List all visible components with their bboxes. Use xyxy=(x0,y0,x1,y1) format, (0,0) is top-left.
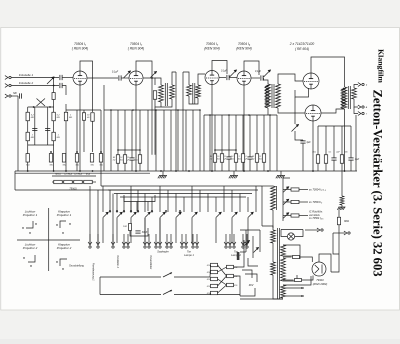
svg-text:50Ω: 50Ω xyxy=(207,279,211,281)
wire terminal feed x98 xyxy=(97,190,99,243)
potentiometer hum balance xyxy=(292,125,299,132)
svg-text:MΩ: MΩ xyxy=(31,117,35,119)
wire cathode group drop x125 xyxy=(124,110,126,155)
resistor R13 1M xyxy=(64,112,67,121)
wire bracket left xyxy=(14,171,16,190)
resistor screen group x257 xyxy=(255,154,258,163)
svg-text:70504 I₁: 70504 I₁ xyxy=(74,42,86,46)
connector block K3 xyxy=(211,277,218,280)
wire V4 plate loop xyxy=(244,61,259,75)
svg-text:Klangfilm: Klangfilm xyxy=(377,49,386,83)
wire right row drop x351 xyxy=(350,126,352,158)
node cathode cluster junction xyxy=(117,149,119,151)
wire screen group drop x250 xyxy=(249,115,251,157)
wire relay contact lower x131 xyxy=(130,218,132,243)
svg-text:( RE 604): ( RE 604) xyxy=(295,47,309,51)
wire terminal lead x156 xyxy=(155,234,157,245)
wire relay contact lower x145 xyxy=(144,218,146,243)
tube V4 70504 I4 (REN 904) xyxy=(237,71,251,85)
resistor right row x342 xyxy=(340,155,343,164)
wire terminal lead x160 xyxy=(159,218,161,245)
svg-text:NF: NF xyxy=(13,91,17,95)
transformer T4 primary winding xyxy=(342,87,347,109)
node bus junctions xyxy=(27,170,29,172)
svg-text:Projektor 2: Projektor 2 xyxy=(23,246,38,250)
wire relay contact lower x103 xyxy=(102,218,104,243)
wire long drop x200 xyxy=(199,110,201,171)
svg-text:0,1: 0,1 xyxy=(329,152,332,154)
wire bracket bottom xyxy=(15,189,150,191)
resistor heater chain R41 xyxy=(54,180,63,183)
wire long drop x171 xyxy=(170,110,172,171)
node mid feed junctions xyxy=(110,109,112,111)
wire connector to transformer xyxy=(234,240,245,267)
wire terminal lead x247 xyxy=(246,234,248,245)
wire T3 primary top xyxy=(264,78,269,84)
svg-text:Projektor 1: Projektor 1 xyxy=(57,213,72,217)
wire T1 primary bottom xyxy=(160,102,162,107)
svg-text:MΩ: MΩ xyxy=(258,159,262,161)
wire T3 secondary bottom to V6 grid xyxy=(278,108,305,113)
wire terminal lead x167 xyxy=(166,234,168,245)
terminal control x193 xyxy=(191,242,195,248)
wire terminal lead x230 xyxy=(229,234,231,245)
wire relay left drop xyxy=(100,171,102,186)
wire right row drop x334 xyxy=(333,126,335,158)
terminal control x197 xyxy=(195,242,199,248)
wire terminal lead x186 xyxy=(185,234,187,245)
wire hum cap to bus xyxy=(302,139,304,141)
wire relay bus B xyxy=(108,189,258,191)
svg-text:Verstärker 2: Verstärker 2 xyxy=(116,255,119,269)
terminal control x90 xyxy=(88,242,92,248)
wire T3 primary bottom xyxy=(267,108,269,115)
wire relay contact lower x232 xyxy=(231,218,233,243)
wire T1 primary top xyxy=(155,78,161,85)
wire right edge drop xyxy=(355,115,357,171)
svg-text:Projektor 1: Projektor 1 xyxy=(23,213,38,217)
terminal control x171 xyxy=(169,242,173,248)
switch position glyph TR xyxy=(60,221,66,228)
wire cap 30uF link xyxy=(130,228,148,236)
svg-text:50Ω: 50Ω xyxy=(207,286,211,288)
svg-text:( REN 904): ( REN 904) xyxy=(128,47,145,51)
wire terminal lead x171 xyxy=(170,234,172,245)
resistor R14 50k xyxy=(82,113,85,121)
svg-text:Fotozelle 2: Fotozelle 2 xyxy=(19,81,34,85)
potentiometer volume 1 xyxy=(124,71,131,78)
wire T4 secondary top to output c xyxy=(354,85,358,89)
svg-text:MΩ: MΩ xyxy=(31,137,35,139)
svg-text:0,1µF: 0,1µF xyxy=(221,71,228,73)
wire cathode group drop x132 xyxy=(131,110,133,158)
wire mains bracket 2 xyxy=(242,270,252,278)
wire relay drop x208 xyxy=(207,194,209,213)
wire relay bus to T5 primary xyxy=(261,186,263,226)
capacitor C12a xyxy=(45,128,50,130)
resistor feedback tap y202 xyxy=(291,200,299,203)
wire left drop x27.7 xyxy=(27,107,29,171)
resistor heater chain R42 xyxy=(64,180,73,183)
wire long drop x104 xyxy=(103,110,105,171)
wire feedback column vertical xyxy=(282,185,284,221)
svg-text:MΩ: MΩ xyxy=(50,165,54,167)
svg-text:60Ω: 60Ω xyxy=(344,219,349,223)
node T1 input junction xyxy=(151,77,153,79)
tube V1 70504 I1 (REN 904) xyxy=(73,71,87,85)
transformer T2 primary winding xyxy=(187,85,192,96)
table divider horizontal xyxy=(17,239,80,241)
wire left drop x101 xyxy=(100,110,102,171)
svg-text:Lampe 2: Lampe 2 xyxy=(231,254,241,257)
svg-text:(REN 904): (REN 904) xyxy=(204,47,220,51)
svg-text:(REN 904): (REN 904) xyxy=(236,47,252,51)
capacitor output stage xyxy=(300,141,305,143)
tube V6 RE604 lower xyxy=(305,105,321,121)
terminal control x149 xyxy=(147,242,151,248)
transformer T4 secondary winding xyxy=(352,88,357,99)
wire relay drop x117 xyxy=(116,194,118,213)
transformer T4 primary winding inner xyxy=(341,88,345,108)
wire long drop x156 xyxy=(155,110,157,171)
wire cathode group drop x118 xyxy=(117,110,119,155)
transformer T5 secondary HT lower xyxy=(281,258,286,281)
svg-text:2µF: 2µF xyxy=(335,152,340,154)
wire long drop x178 xyxy=(177,110,179,171)
wire right row drop x342 xyxy=(341,126,343,155)
wire relay drop x184 xyxy=(183,197,185,212)
wire filament return xyxy=(240,298,283,300)
wire screen group drop x222 xyxy=(221,115,223,154)
wire input 2 stub xyxy=(63,86,67,96)
wire coupling to V4 grid xyxy=(230,77,238,79)
resistor bias chain R33 xyxy=(62,154,65,163)
wire V2 plate loop xyxy=(136,61,152,88)
connector block K5 xyxy=(211,291,218,294)
wire input 2 xyxy=(12,85,60,87)
wire T5 filament to rectifier xyxy=(283,276,311,285)
svg-text:(RGN 2004): (RGN 2004) xyxy=(313,282,328,286)
wire T1 secondary top to long drop xyxy=(172,72,176,85)
wire relay drop x224 xyxy=(223,186,225,212)
svg-text:Vorverstärker: Vorverstärker xyxy=(149,255,152,269)
wire relay drop x152 xyxy=(151,197,153,212)
wire V4 plate to coupling cap xyxy=(251,77,260,79)
wire choke top xyxy=(262,185,273,187)
switch position glyph TL xyxy=(26,221,33,228)
wire T3 secondary top to V5 grid xyxy=(278,74,303,84)
potentiometer T1 input xyxy=(151,72,157,78)
terminal control x234 xyxy=(232,242,236,248)
wire terminal lead x98 xyxy=(97,234,99,245)
wire right row drop x318 xyxy=(317,126,319,155)
svg-text:zu 70504 I₄ ₅: zu 70504 I₄ ₅ xyxy=(308,217,323,220)
resistor cathode group x140 xyxy=(138,155,141,164)
svg-text:MΩ: MΩ xyxy=(230,159,234,161)
svg-text:MΩ: MΩ xyxy=(134,160,138,162)
capacitor input 1 xyxy=(60,75,62,80)
wire relay drop x200 xyxy=(199,190,201,212)
wire anode feed lower cont xyxy=(302,276,314,281)
wire mains terminal link xyxy=(305,229,318,231)
svg-text:0,1µF: 0,1µF xyxy=(255,71,262,73)
wire right column down xyxy=(333,233,339,254)
wire feedback tap y215.5 xyxy=(283,215,291,217)
wire V1 cathode down xyxy=(79,85,81,110)
wire terminal lead x128 xyxy=(127,234,129,245)
wire screen group drop x257 xyxy=(256,115,258,154)
switch mains contact 2 xyxy=(254,248,259,253)
wire connector feeds xyxy=(209,265,212,277)
ground symbol at x234 xyxy=(233,171,235,176)
wire left drop x53.6 xyxy=(53,86,55,172)
wire relay drop x145 xyxy=(144,194,146,213)
resistor heater chain R44 xyxy=(84,180,93,183)
connector block K1 xyxy=(211,263,218,266)
wire relay drop x240 xyxy=(239,194,241,213)
switch mains contact 1 xyxy=(245,241,250,246)
switch feedback tap y189.5 xyxy=(283,187,289,193)
svg-text:Lampe 1: Lampe 1 xyxy=(184,254,194,257)
wire feedback column riser xyxy=(283,178,290,185)
svg-text:Zetton-Verstärker (3. Serie) 3: Zetton-Verstärker (3. Serie) 32 603 xyxy=(371,89,385,276)
wire V5 plate to T4 xyxy=(311,57,345,87)
wire V6 cathode down xyxy=(312,121,314,171)
switch relay contact x160 xyxy=(160,212,166,218)
wire long drop x111 xyxy=(110,110,112,171)
wire V1 to coupling cap xyxy=(87,77,118,79)
terminal output c xyxy=(358,83,364,87)
terminal mains arrow 1 xyxy=(317,228,323,232)
wire T4 secondary bottom xyxy=(354,99,358,107)
svg-text:50Ω: 50Ω xyxy=(234,285,238,287)
wire main bus second line xyxy=(15,172,150,174)
svg-text:0,1µF: 0,1µF xyxy=(112,71,119,74)
tube V7 rectifier 79301 RGN2004 xyxy=(312,262,326,276)
resistor right row x318 xyxy=(316,155,319,164)
switch relay contact x176 xyxy=(176,212,182,218)
resistor feedback tap y189.5 xyxy=(291,188,299,191)
resistor bias chain R34 xyxy=(75,154,78,163)
capacitor screen group x250 xyxy=(247,157,252,159)
wire choke bottom xyxy=(272,210,274,228)
terminal control x247 xyxy=(245,242,249,248)
tube V5 RE604 upper xyxy=(303,73,319,89)
wire relay inner drops xyxy=(130,202,132,212)
wire drop x88 xyxy=(79,110,81,171)
node screen cluster junctions xyxy=(214,149,216,151)
transformer T3 primary winding xyxy=(266,84,271,108)
resistor cathode group x125 xyxy=(123,155,126,164)
wire heater chain connections xyxy=(52,181,54,183)
resistor bleeder zigzag xyxy=(340,196,344,205)
connector block K4 xyxy=(211,284,218,287)
resistor anode fuse lower xyxy=(295,279,302,282)
switch position glyph BL xyxy=(28,255,35,262)
wire T5 secondary taps xyxy=(283,245,300,259)
wire relay drop x256 xyxy=(255,186,257,212)
resistor R12 0,2M xyxy=(52,112,55,121)
wire V5 cathode xyxy=(295,88,309,97)
capacitor cathode group x132 xyxy=(129,158,134,160)
node row3 junctions xyxy=(50,151,52,153)
wire mains network verticals xyxy=(245,230,247,252)
switch mains blade 2 xyxy=(163,290,172,295)
wire screen group drop x215 xyxy=(214,115,216,154)
transformer T5 primary winding upper xyxy=(271,230,276,243)
svg-text:MΩ: MΩ xyxy=(69,117,73,119)
ground bleeder xyxy=(341,205,343,207)
wire terminal lead x149 xyxy=(148,234,150,245)
svg-text:(kΩ): (kΩ) xyxy=(86,174,90,176)
terminal mains arrow 2 xyxy=(344,231,350,235)
wire output arrow 2 xyxy=(284,295,304,297)
wire input 1 to V1 grid xyxy=(63,77,74,79)
resistor screen group x236 xyxy=(234,154,237,163)
tube V3 70504 I3 (REN 904) xyxy=(205,71,219,85)
transformer T2 core xyxy=(192,83,194,104)
wire NF stub xyxy=(12,95,19,97)
wire mains bracket 1 xyxy=(248,258,258,266)
node input junction 1 xyxy=(53,77,55,79)
switch relay contact x192 xyxy=(192,212,198,218)
terminal control x230 xyxy=(228,242,232,248)
switch position glyph BR xyxy=(60,259,67,266)
wire mains lower xyxy=(240,288,255,296)
node left y107 junctions xyxy=(33,106,35,108)
wire relay bus C xyxy=(114,193,252,195)
wire terminal feed x113 xyxy=(112,194,114,244)
wire V3 plate to coupling xyxy=(219,77,226,79)
wire rectifier anode feed lower xyxy=(283,279,294,281)
wire terminal lead x113 xyxy=(112,234,114,245)
resistor T1 damping xyxy=(153,91,156,100)
node relay contact circles xyxy=(109,210,111,212)
wire screen group drop x243 xyxy=(242,115,244,154)
wire relay contact lower x192 xyxy=(191,218,193,243)
potentiometer volume 2 xyxy=(230,70,237,77)
terminal output a xyxy=(358,105,364,109)
resistor screen group x222 xyxy=(220,154,223,163)
ground symbol at x281 xyxy=(280,171,282,176)
terminal NF xyxy=(5,94,11,98)
wire mid row feed horizontal xyxy=(104,109,200,111)
wire T5 primary link xyxy=(272,243,274,262)
resistor bias chain R31 xyxy=(26,154,29,163)
switch relay contact x103 xyxy=(103,212,109,218)
wire mains network horizontals xyxy=(240,229,260,231)
switch relay contact x232 xyxy=(232,212,238,218)
node screen feed junctions xyxy=(209,114,211,116)
wire left drop x47.7 xyxy=(47,107,49,145)
wire V3 plate loop xyxy=(212,61,227,75)
wire long drop x193 xyxy=(192,110,194,171)
capacitor 30uF xyxy=(135,231,140,233)
wire mains switch row 1 cont xyxy=(174,276,210,278)
wire T5 primary top xyxy=(262,226,273,230)
terminal control x128 xyxy=(126,242,130,248)
choke L1 core xyxy=(276,186,278,210)
capacitor input 2 xyxy=(60,83,62,88)
wire relay drop x248 xyxy=(247,197,249,212)
wire left drop x18 xyxy=(17,96,19,171)
wire output tap r xyxy=(354,107,358,114)
resistor screen group x215 xyxy=(213,154,216,163)
wire relay drop x138 xyxy=(137,190,139,212)
svg-text:Fernsteuerung 1: Fernsteuerung 1 xyxy=(92,263,95,281)
transformer T5 primary winding lower xyxy=(271,262,276,275)
terminal control x113 xyxy=(111,242,115,248)
wire relay drop x232 xyxy=(231,190,233,212)
wire relay bus D xyxy=(120,196,246,198)
fuse block mains xyxy=(237,252,240,260)
table divider vertical xyxy=(48,208,50,271)
wire relay contact lower x160 xyxy=(159,218,161,243)
terminal control x243 xyxy=(241,242,245,248)
svg-text:MΩ: MΩ xyxy=(63,165,67,167)
svg-text:( REN 904): ( REN 904) xyxy=(72,47,89,51)
wire V6 plate to T4 xyxy=(321,109,345,113)
resistor right row x326 xyxy=(324,155,327,164)
switch feedback tap y202 xyxy=(283,199,289,205)
wire feedback tap y189.5 xyxy=(283,189,291,191)
wire screen cluster link xyxy=(215,149,236,151)
svg-text:MΩ: MΩ xyxy=(76,165,80,167)
switch relay contact x117 xyxy=(117,212,123,218)
transformer T5 secondary HT upper xyxy=(281,245,286,256)
capacitor coupling C45 xyxy=(261,75,263,80)
wire rectifier anode feed upper xyxy=(283,256,292,258)
wire long drop x277 xyxy=(276,115,278,171)
wire right row feed xyxy=(318,125,351,127)
wire mains risers xyxy=(99,277,101,295)
wire V1 plate load to bus xyxy=(92,121,94,152)
resistor anode fuse upper xyxy=(293,256,300,259)
svg-text:r: r xyxy=(366,112,367,116)
wire cathode cluster link xyxy=(118,149,140,151)
wire bracket top xyxy=(52,175,96,177)
svg-text:46V: 46V xyxy=(249,283,254,287)
wire long drop x210 xyxy=(209,115,211,171)
wire anode feed upper cont xyxy=(300,257,313,262)
wire V2 cathode down xyxy=(135,85,137,171)
resistor R15 1M xyxy=(26,132,29,141)
wire relay drop x216 xyxy=(215,197,217,212)
wire terminal lead x226 xyxy=(225,234,227,245)
svg-text:2 x 71423/71420: 2 x 71423/71420 xyxy=(289,42,315,46)
resistor 600 ohm xyxy=(337,217,340,225)
svg-text:4µF: 4µF xyxy=(355,158,360,161)
wire terminal lead x124 xyxy=(123,234,125,245)
potentiometer gain output xyxy=(264,70,271,77)
wire relay drop x176 xyxy=(175,194,177,213)
transformer T1 secondary winding xyxy=(170,85,175,99)
wire terminal lead x234 xyxy=(233,234,235,245)
wire lamp leads xyxy=(281,230,287,237)
switch relay contact x216 xyxy=(216,212,222,218)
capacitor screen group x229 xyxy=(226,157,231,159)
potentiometer input level xyxy=(47,77,54,84)
wire hum pot down xyxy=(295,131,303,140)
svg-text:MΩ: MΩ xyxy=(57,137,61,139)
wire lamp top loop xyxy=(281,229,303,231)
wire V4 cathode down xyxy=(243,85,245,171)
ground symbol at x163 xyxy=(162,171,164,176)
transformer T5 secondary filament xyxy=(281,285,286,298)
wire B+ down right xyxy=(331,254,339,272)
svg-text:zu 70504 I₃: zu 70504 I₃ xyxy=(308,200,322,204)
capacitor coupling C12 xyxy=(119,75,121,80)
